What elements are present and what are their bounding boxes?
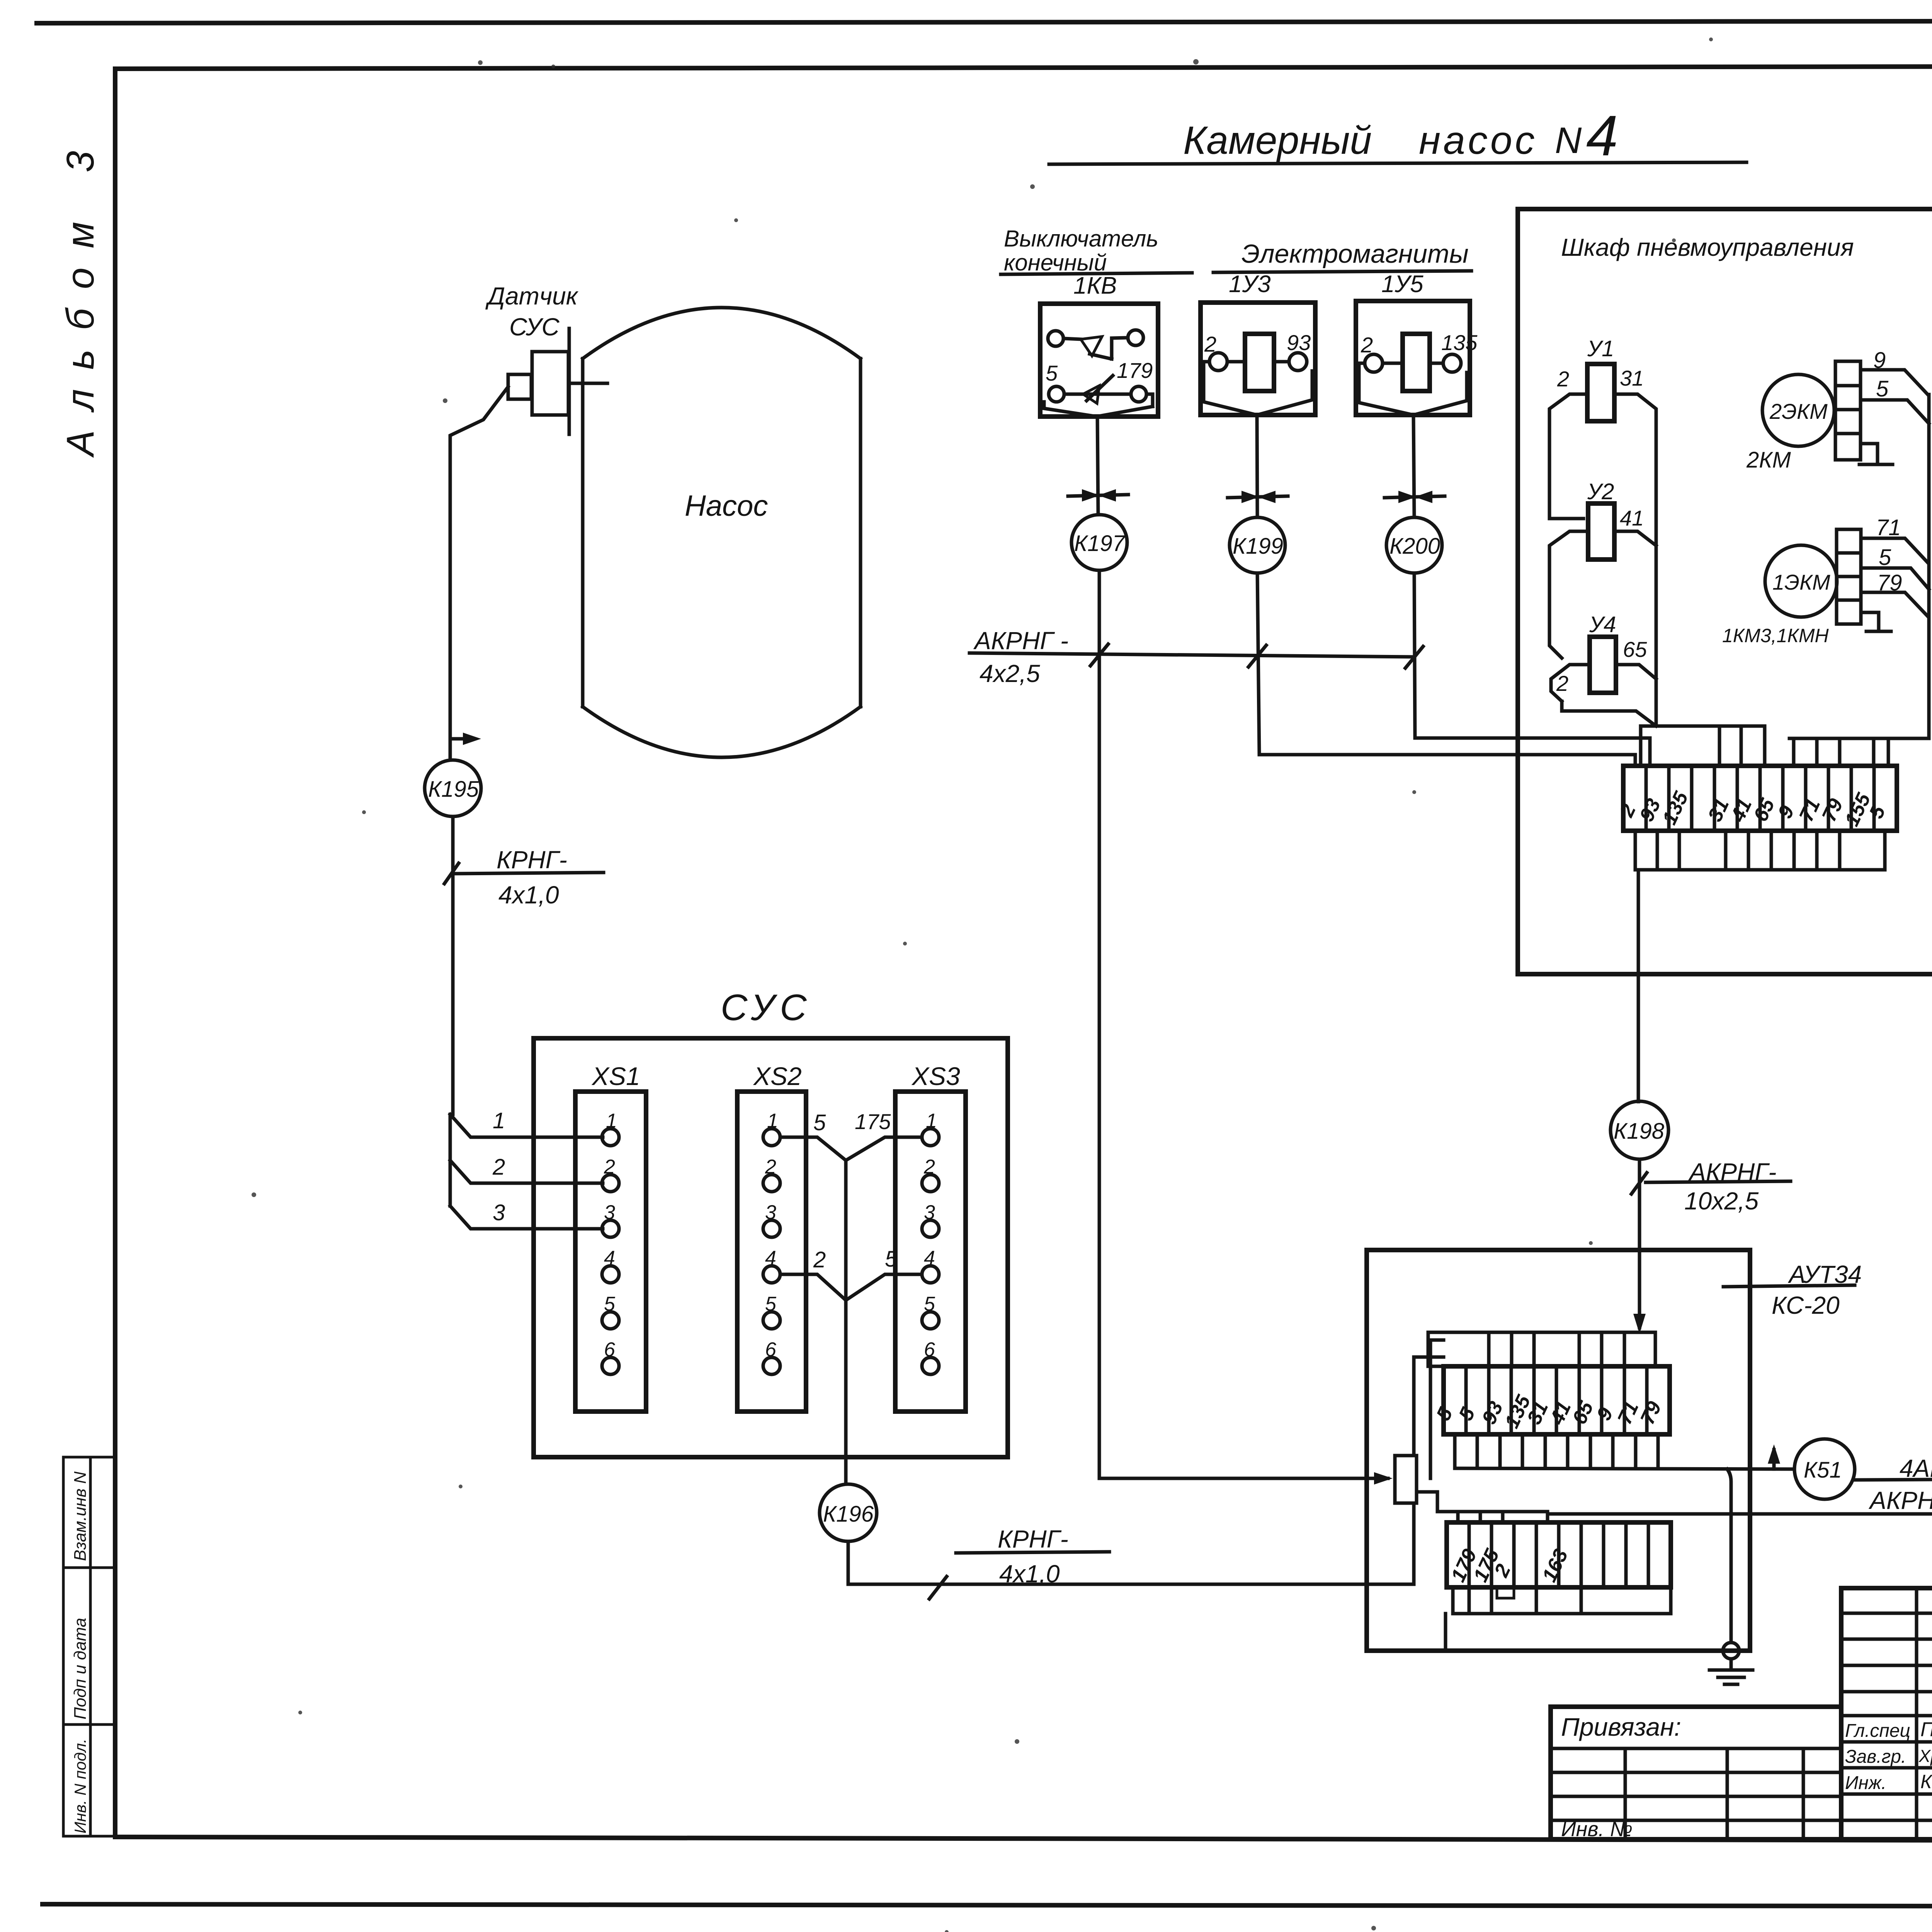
svg-text:У4: У4 <box>1589 612 1616 637</box>
svg-text:4х1,0: 4х1,0 <box>498 881 559 909</box>
svg-text:2ЭКМ: 2ЭКМ <box>1769 399 1828 423</box>
svg-text:Шкаф пневмоуправления: Шкаф пневмоуправления <box>1561 233 1854 261</box>
internal wires: 5-terminals to bar and K196/K197 lines <box>1414 1340 1548 1522</box>
svg-text:У2: У2 <box>1587 479 1614 504</box>
wire: 1КВ down to K197 <box>1097 417 1098 515</box>
svg-text:71: 71 <box>1876 515 1901 540</box>
cable entry arrow above K199 <box>1228 491 1288 503</box>
bus bar <box>1395 1456 1417 1503</box>
svg-text:К197: К197 <box>1074 531 1126 556</box>
svg-text:2: 2 <box>1557 367 1569 391</box>
svg-text:Выключатель: Выключатель <box>1004 226 1158 252</box>
note Привязан <box>1551 1707 1841 1841</box>
svg-text:4х1,0: 4х1,0 <box>999 1560 1060 1588</box>
svg-text:135: 135 <box>1441 330 1478 355</box>
svg-text:СУС: СУС <box>721 987 812 1028</box>
svg-text:Электромагниты: Электромагниты <box>1242 239 1469 269</box>
svg-text:N: N <box>1555 120 1582 161</box>
terminal stack of 1ЭКМ, pins 71 5 79 <box>1837 515 1929 631</box>
terminal stack of 2ЭКМ, pins 9 and 5 <box>1835 348 1929 464</box>
cable marker K197 <box>1071 515 1127 570</box>
wire: XS2.4 to XS3.4, nodes 2 and 5 <box>780 1247 922 1300</box>
svg-text:1ЭКМ: 1ЭКМ <box>1772 570 1830 594</box>
wire branch 3 to XS1.3 <box>450 1200 603 1229</box>
stubs from collector to strip cells 9 71 79 155 5 <box>1794 738 1888 766</box>
svg-text:К196: К196 <box>823 1502 874 1527</box>
cable entry arrow above K197 <box>1068 489 1128 502</box>
svg-text:К200: К200 <box>1389 534 1440 559</box>
svg-text:5: 5 <box>1865 802 1890 822</box>
svg-text:АКРНГ -: АКРНГ - <box>973 627 1068 655</box>
arrowhead into bus bar <box>1374 1472 1393 1485</box>
wire branch 1 to XS1.1 <box>450 1108 603 1137</box>
svg-text:К198: К198 <box>1614 1119 1664 1144</box>
wire: K199 down then right into cabinet strip <box>1257 573 1635 766</box>
svg-text:насос: насос <box>1419 118 1537 162</box>
svg-text:175: 175 <box>855 1109 891 1134</box>
cable label АКРНГ-10х2,5 <box>1631 1158 1791 1250</box>
svg-text:9: 9 <box>1774 802 1799 822</box>
svg-text:1У5: 1У5 <box>1381 271 1423 298</box>
svg-text:5: 5 <box>813 1110 826 1135</box>
slash junction at K199/bus <box>1248 645 1266 667</box>
svg-text:Инж.: Инж. <box>1845 1773 1886 1793</box>
svg-text:4х2,5: 4х2,5 <box>980 660 1040 687</box>
svg-text:Гл.спец: Гл.спец <box>1845 1721 1910 1741</box>
cable label КРНГ-4х1,0 (upper) <box>444 846 604 909</box>
svg-text:Взам.инв N: Взам.инв N <box>71 1471 90 1561</box>
wire: junction down to K196 <box>844 1160 848 1300</box>
svg-text:5: 5 <box>1879 545 1891 570</box>
svg-text:1КМ3,1КМН: 1КМ3,1КМН <box>1722 625 1829 646</box>
cable marker K198 <box>1611 1101 1668 1159</box>
wire: K200 down then right into cabinet strip <box>1414 573 1650 766</box>
solenoid 1У3 <box>1201 271 1315 415</box>
solenoid У4 <box>1556 612 1647 696</box>
svg-text:Кадыкова: Кадыкова <box>1920 1771 1932 1793</box>
svg-text:2: 2 <box>1615 801 1640 821</box>
cable marker K51 <box>1794 1439 1855 1499</box>
wire: ЭКМ collector down to strip <box>1789 395 1929 738</box>
svg-text:К199: К199 <box>1233 534 1283 559</box>
svg-text:2: 2 <box>492 1155 505 1180</box>
svg-text:65: 65 <box>1623 637 1647 662</box>
wire: upper strip to K51 <box>1455 1468 1794 1469</box>
svg-text:Инв. №: Инв. № <box>1561 1818 1633 1841</box>
wire: K195 down to СУС inputs <box>451 816 455 1114</box>
upper connector rail <box>1428 1332 1655 1366</box>
svg-text:СУС: СУС <box>509 313 560 341</box>
wire: 1У3 down to K199 <box>1257 415 1257 517</box>
title block <box>1841 1588 1932 1839</box>
terminal box АУТ34 КС-20 outline <box>1367 1250 1750 1651</box>
lower terminal strip: 179 175 2 - 163 <box>1447 1522 1671 1587</box>
stubs below strip to collector line <box>1635 831 1885 870</box>
svg-text:К195: К195 <box>428 777 479 802</box>
svg-text:31: 31 <box>1620 366 1644 390</box>
svg-text:У1: У1 <box>1587 336 1614 361</box>
ground <box>1367 1643 1753 1684</box>
pressure gauge 2ЭКМ <box>1746 374 1834 473</box>
svg-text:Датчик: Датчик <box>485 282 579 310</box>
svg-text:Хрипушкина: Хрипушкина <box>1918 1746 1932 1766</box>
svg-text:2: 2 <box>1490 1561 1515 1581</box>
svg-text:К51: К51 <box>1804 1458 1842 1483</box>
title: Камерный насос N4 <box>1049 104 1747 168</box>
stamp column: Взам.инв N / Подп и дата / Инв.N подл <box>63 1457 115 1836</box>
svg-text:XS3: XS3 <box>911 1062 960 1090</box>
svg-text:10х2,5: 10х2,5 <box>1684 1187 1759 1215</box>
wire: 1У5 down to K200 <box>1413 415 1414 517</box>
svg-text:1У3: 1У3 <box>1229 271 1271 298</box>
cable marker K200 <box>1386 517 1442 573</box>
svg-text:3: 3 <box>493 1200 505 1225</box>
svg-text:КРНГ-: КРНГ- <box>998 1525 1068 1553</box>
svg-text:1: 1 <box>493 1108 505 1133</box>
label Выключатель конечный <box>1001 226 1192 276</box>
connector XS3 <box>895 1062 966 1412</box>
label Электромагниты <box>1213 239 1471 272</box>
cable bus АКРНГ-4х2,5 <box>969 627 1414 687</box>
solenoid У2 <box>1587 479 1644 560</box>
wire branch 2 to XS1.2 <box>450 1155 603 1183</box>
svg-text:Подп и дата: Подп и дата <box>71 1618 90 1719</box>
slash junction at K197/bus <box>1090 644 1108 666</box>
svg-text:Инв. N подл.: Инв. N подл. <box>71 1739 89 1833</box>
svg-text:АКРНГ - 14х2,5: АКРНГ - 14х2,5 <box>1868 1486 1932 1514</box>
connector XS2 <box>737 1062 806 1412</box>
svg-text:XS2: XS2 <box>753 1062 802 1090</box>
cable label 4АКSН / АКРНГ-14х2,5 <box>1855 1454 1932 1514</box>
svg-text:5: 5 <box>1876 376 1889 401</box>
solenoid 1У5 <box>1356 271 1478 415</box>
cable marker K195 <box>425 760 481 816</box>
cable label КРНГ-4х1,0 (lower) <box>929 1525 1109 1599</box>
connector XS1 <box>575 1062 646 1412</box>
tank Насос <box>583 308 861 757</box>
stubs below upper strip to K51 line <box>1455 1434 1658 1468</box>
svg-text:конечный: конечный <box>1004 250 1107 276</box>
svg-text:93: 93 <box>1287 330 1311 355</box>
wire: cabinet down to K198 <box>1637 870 1640 1102</box>
svg-text:135: 135 <box>1658 788 1693 828</box>
svg-text:79: 79 <box>1636 1398 1666 1428</box>
svg-text:Зав.гр.: Зав.гр. <box>1845 1747 1906 1767</box>
wire: K197 down to АУТ34 bus bar <box>1098 570 1101 654</box>
terminal strip of cabinet: 2 93 135 - 31 41 65 9 71 79 155 5 <box>1615 766 1897 831</box>
wire: sensor to K195 <box>450 387 508 760</box>
svg-text:2КМ: 2КМ <box>1746 447 1791 473</box>
svg-text:5: 5 <box>885 1247 898 1272</box>
svg-text:Камерный: Камерный <box>1183 118 1372 162</box>
svg-text:Альбом 3: Альбом 3 <box>59 131 102 458</box>
box СУС <box>534 987 1008 1457</box>
svg-text:Насос: Насос <box>685 490 768 522</box>
solenoid У1 <box>1557 336 1644 421</box>
cable entry arrow above K200 <box>1384 491 1445 503</box>
wire: XS2.1 to XS3.1, nodes 5 and 175 <box>780 1109 922 1160</box>
svg-text:41: 41 <box>1620 506 1644 530</box>
up arrow before K51 <box>1768 1444 1780 1469</box>
svg-text:КС-20: КС-20 <box>1772 1291 1840 1319</box>
wire: У chain banner outline <box>1549 394 1656 726</box>
branch wire down to box bottom <box>1727 1469 1731 1642</box>
limit switch 1КВ <box>1040 272 1158 417</box>
cable marker K199 <box>1230 517 1285 573</box>
pressure gauge 1ЭКМ <box>1722 545 1837 646</box>
svg-text:Привязан:: Привязан: <box>1561 1713 1681 1741</box>
connector box above strip cells 31 41 65 <box>1641 726 1765 766</box>
wire: terminal 163 up and right to siren K50 <box>1548 1514 1932 1522</box>
svg-text:179: 179 <box>1117 358 1153 383</box>
svg-text:XS1: XS1 <box>591 1062 640 1090</box>
svg-text:1КВ: 1КВ <box>1073 272 1117 299</box>
lower connector rail <box>1446 1587 1671 1651</box>
svg-text:КРНГ-: КРНГ- <box>497 846 567 874</box>
slash junction at K200/bus <box>1405 646 1423 668</box>
cable label АУТ34 КС-20 <box>1723 1260 1862 1319</box>
svg-text:4: 4 <box>1586 104 1618 168</box>
svg-text:2: 2 <box>813 1247 826 1272</box>
svg-text:93: 93 <box>1635 795 1665 825</box>
cable entry arrow on K195 wire <box>450 733 481 745</box>
wire: K198 into upper connector with arrow <box>1633 1250 1646 1334</box>
wire: K196 to terminal box АУТ34 <box>848 1503 1414 1584</box>
svg-text:Потехин: Потехин <box>1920 1718 1932 1741</box>
svg-text:9: 9 <box>1592 1404 1617 1424</box>
svg-text:163: 163 <box>1538 1546 1572 1585</box>
cable marker K196 <box>820 1484 877 1541</box>
svg-text:5: 5 <box>1046 361 1058 385</box>
upper terminal strip: 5 5 93 135 31 41 65 9 71 79 <box>1432 1366 1670 1434</box>
sensor Датчик СУС <box>485 282 607 434</box>
cabinet Шкаф пневмоуправления <box>1518 209 1932 974</box>
